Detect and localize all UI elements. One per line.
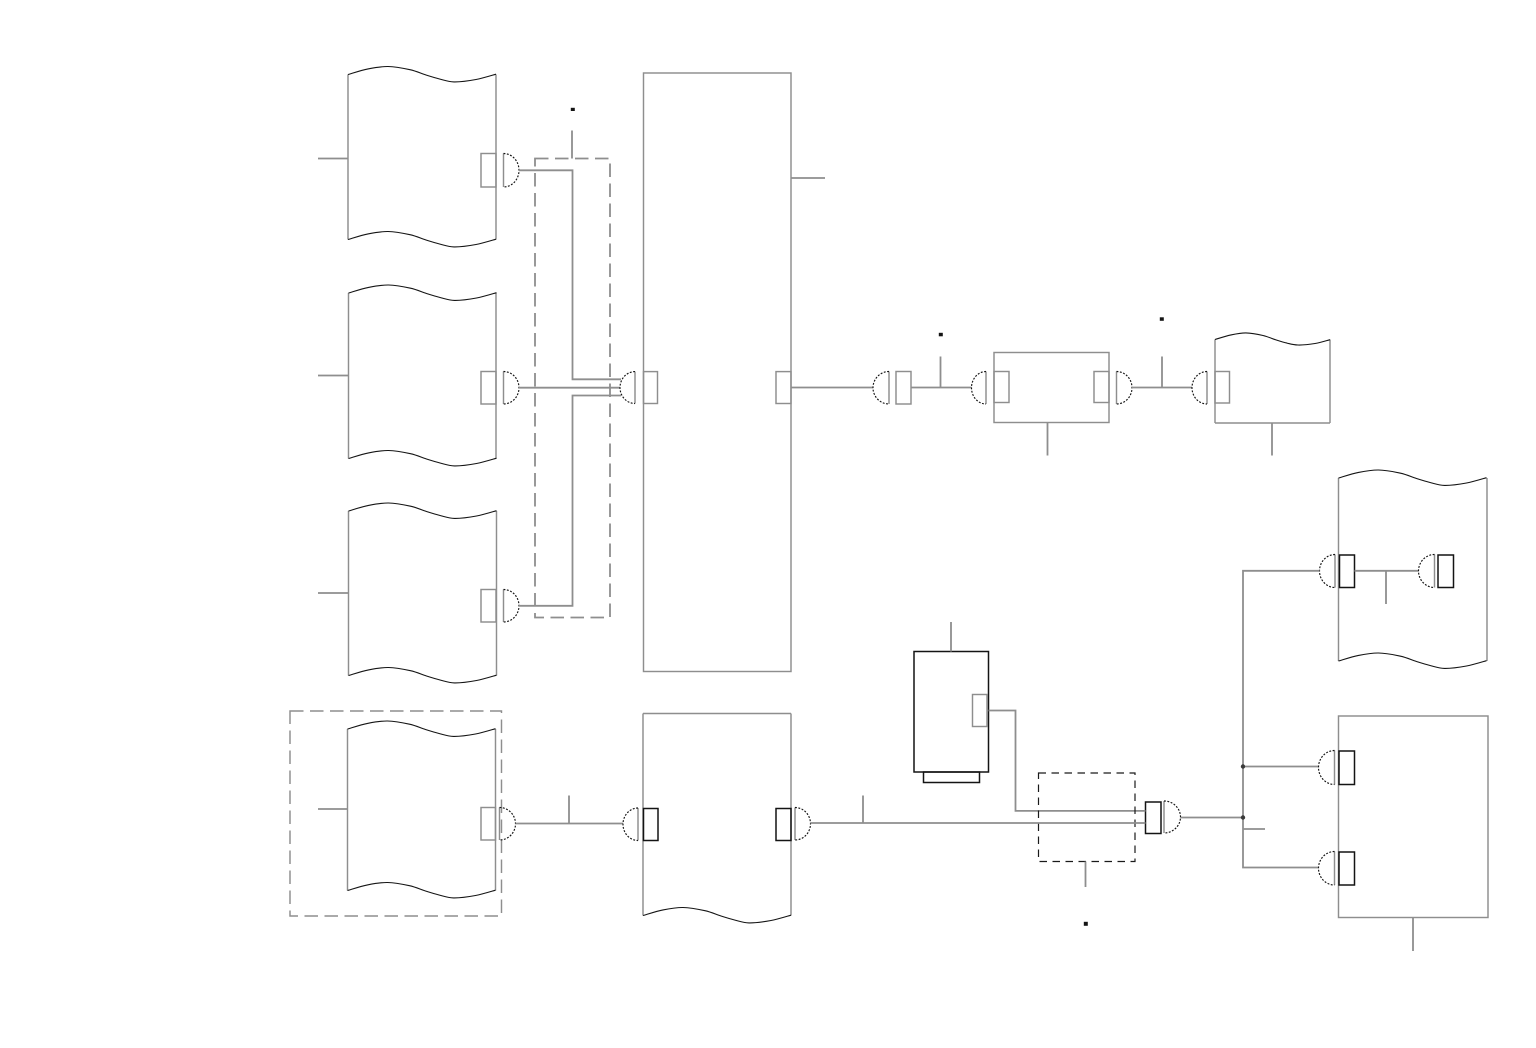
reverse-D connector glyph RD5 at B6 edge port [1320,555,1336,588]
dashed rectangle DR3 [1039,773,1136,862]
reverse-D connector glyph RD7 at B7 upper port [1319,751,1335,785]
stub wire S2 on chain [1161,357,1163,388]
tiny label mark above S2 [1160,317,1164,321]
trunk wire right side [1243,571,1320,868]
connector D glyph at B1 port [504,154,520,188]
reverse-D connector glyph RD2 [873,372,889,405]
block B7 bottom-right [1339,716,1489,918]
port on M1 left edge [994,372,1009,403]
stub wire below B4 [1271,423,1273,456]
block B2 torn component mid-left [349,285,497,466]
port on B1 right edge [481,154,496,188]
port on T1 right edge [776,372,791,404]
wire T1 to RD2 [791,387,873,389]
reverse-D connector glyph RD9 at B8 left port [623,808,638,841]
stub wire S1 on chain [940,357,942,388]
tall block T1 [644,73,792,672]
connector D glyph D5 at M1 right port [1117,372,1133,405]
middle rect M1 [994,353,1109,423]
wire B8 to P2 [811,822,1146,824]
stub wire left of B3 [318,592,349,594]
connector D glyph at B2 port [504,372,520,405]
stub wire right of trunk [1243,828,1265,830]
connector D glyph D7 at B8 right port [795,808,811,841]
port on B8 right edge [776,809,791,841]
tiny label mark above DR1 [571,108,575,111]
wire B1 to junction reverse-D [519,170,621,379]
block B6 torn component right [1339,470,1488,668]
stub wire above DR1 [571,131,573,159]
stub wire left of B5 [318,808,348,810]
floating port inside B6 [1438,555,1454,588]
junction dot upper [1241,764,1245,768]
block B5 torn component inside DR2 [348,721,496,898]
reverse-D connector glyph RD8 at B7 lower port [1319,852,1335,886]
port on B8 left edge [644,809,659,841]
stub wire above B8-P2 wire [862,796,864,824]
port on B9 right edge [973,695,988,727]
junction dot lower [1241,815,1245,819]
wire D5 to RD4 [1132,387,1192,389]
port on B6 left edge [1340,555,1355,588]
floating port P1 on chain [896,372,911,405]
connector D glyph D6 right of P2 [1164,801,1181,833]
stub wire below B6 inner wire [1385,571,1387,604]
reverse-D connector glyph RD3 at middle rect left port [972,372,987,405]
lower port on B7 left edge [1339,852,1355,885]
stub wire above B9 [950,622,952,652]
wire inside B6 [1355,570,1419,572]
floating port P2 before trunk [1146,802,1162,834]
port on B4 left edge [1215,372,1230,404]
block B1 torn component top-left [348,66,496,246]
wire B3 to junction reverse-D [519,396,621,606]
tiny label mark below DR3 [1084,922,1088,926]
block B4 torn-top component [1215,333,1330,423]
block B8 torn-bottom component bottom-middle [643,714,791,923]
reverse-D connector glyph RD6 inside B6 [1419,555,1435,588]
wire B5 to B8 [516,823,624,825]
branch wire from D6 to trunk [1181,817,1244,819]
wire B9 to P2 [989,711,1146,811]
stub wire top-right of T1 [791,177,825,179]
reverse-D connector glyph RD4 at block B4 port [1192,372,1207,405]
tiny label mark above S1 [939,333,943,337]
port on B5 right edge [481,808,496,841]
reverse-D connector glyph RD1 at tall block left port [620,372,635,404]
port on B2 right edge [481,372,496,405]
dashed group rectangle DR1 [535,159,610,618]
port on M1 right edge [1094,372,1109,403]
stub wire below DR3 [1085,862,1087,888]
wire P1 to RD3 [911,387,972,389]
pedestal block B9 [914,652,989,783]
dashed rectangle DR2 bottom-left [290,711,502,916]
wire B2 to junction reverse-D [519,387,620,389]
stub wire below B7 [1412,918,1414,952]
connector D glyph at B3 port [504,590,520,623]
block B3 torn component bottom-left [349,503,497,683]
branch wire to B7 upper connector [1243,766,1319,768]
stub wire below M1 [1047,423,1049,456]
connector D glyph D8 at B5 port [500,808,516,841]
stub wire left of B2 [318,375,349,377]
port on T1 left edge [644,372,658,404]
port on B3 right edge [481,590,496,623]
stub wire left of B1 [318,158,348,160]
stub wire above B5-B8 wire [568,796,570,824]
upper port on B7 left edge [1339,751,1355,785]
